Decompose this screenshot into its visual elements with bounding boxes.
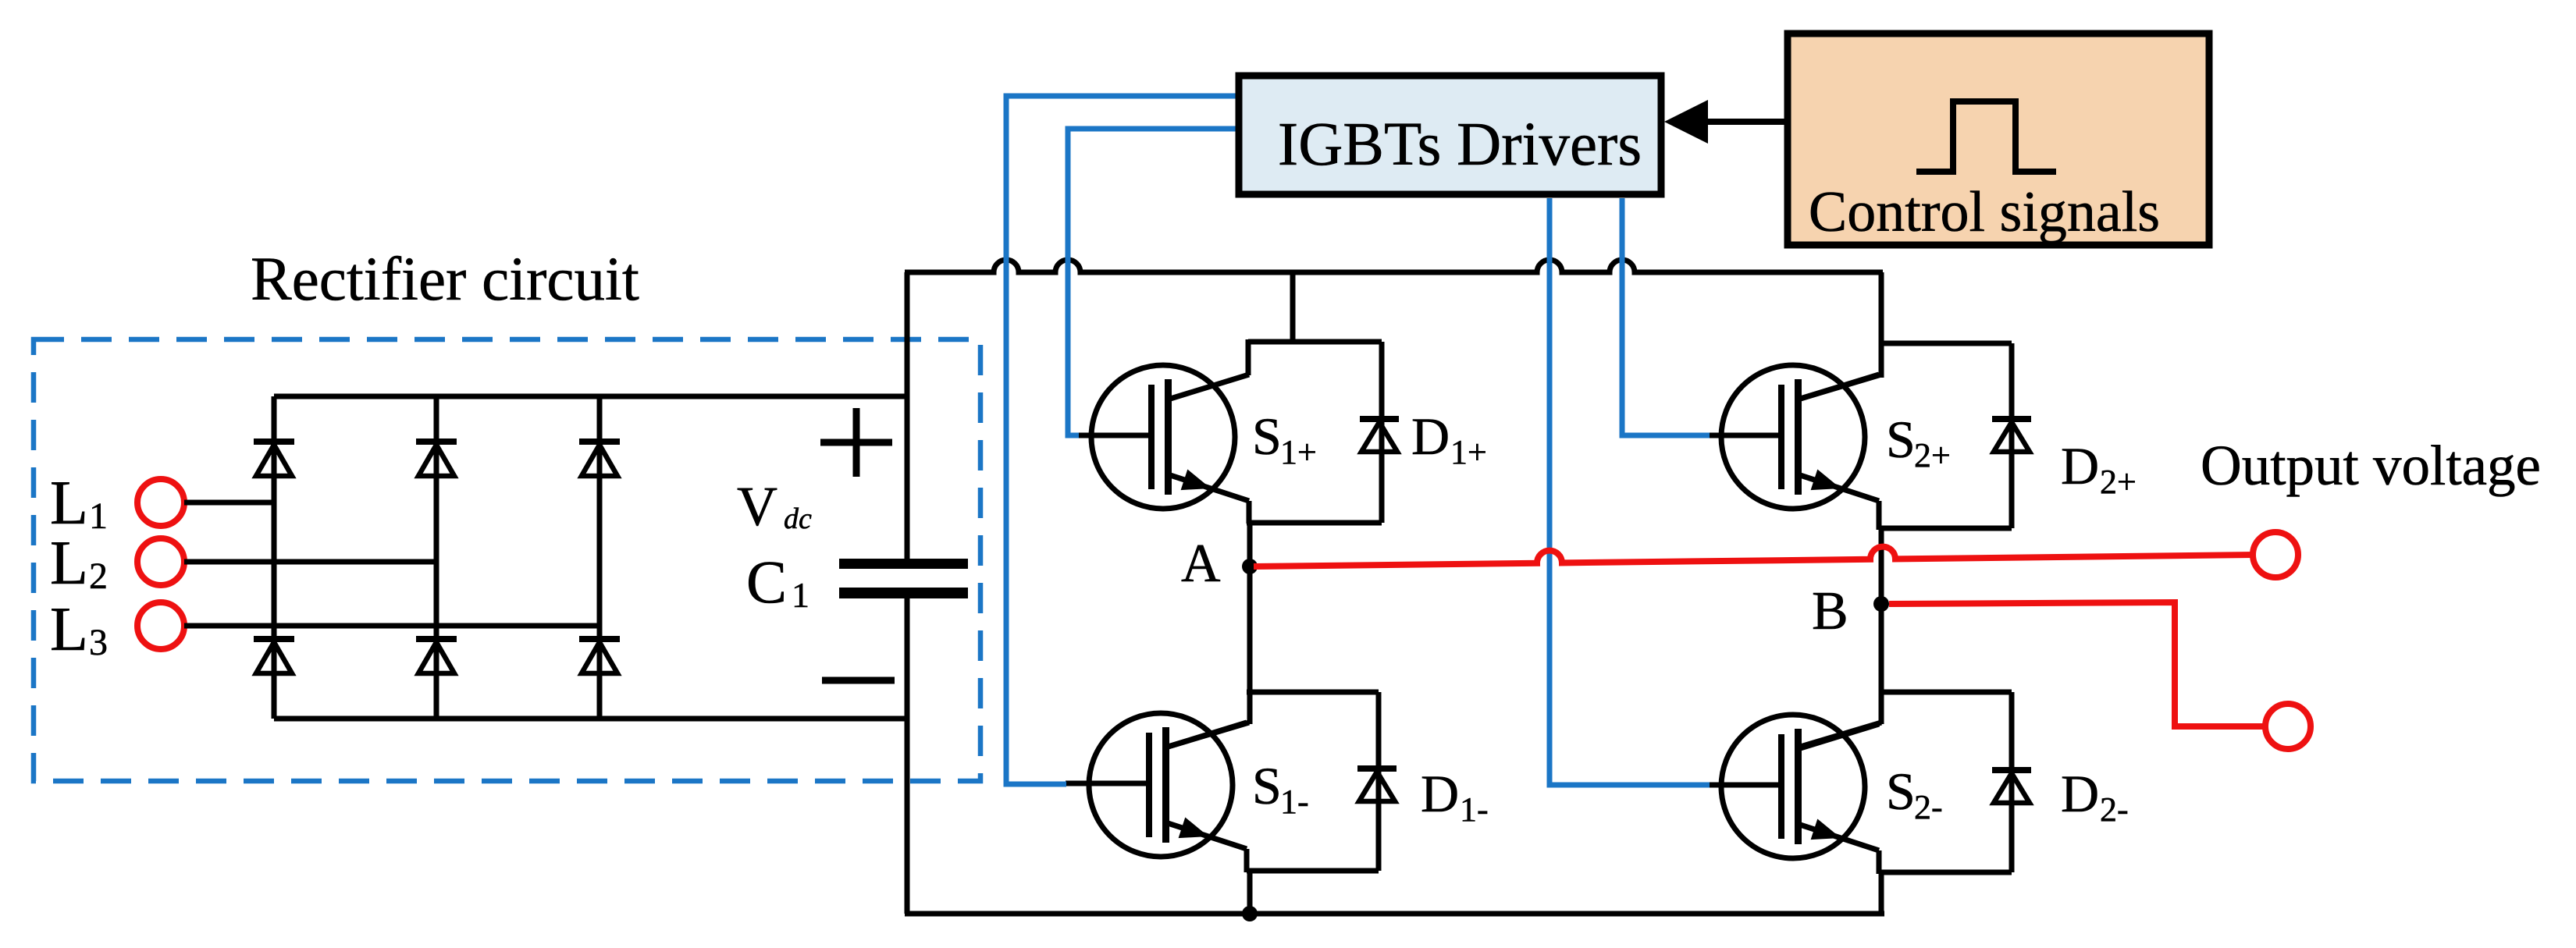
diode D2- cathode bar <box>1992 767 2031 773</box>
svg-text:B: B <box>1812 581 1848 641</box>
svg-text:A: A <box>1181 534 1221 594</box>
wire: D2+ branch <box>2009 343 2015 528</box>
IGBT S1+ collector lead <box>1168 375 1249 399</box>
svg-text:L: L <box>50 469 88 538</box>
wire: D2- branch <box>2009 692 2015 872</box>
svg-text:L: L <box>50 595 88 664</box>
node B dot <box>1873 596 1889 612</box>
svg-text:S: S <box>1252 756 1282 815</box>
svg-text:1: 1 <box>89 495 108 537</box>
wire: gate drive to S2- (blue) <box>1550 198 1710 785</box>
svg-text:1-: 1- <box>1280 783 1309 821</box>
svg-text:3: 3 <box>89 622 108 663</box>
wire: output B (red) <box>1889 602 2265 726</box>
wire: S1+/D1+ loop top <box>1248 339 1382 345</box>
diode D2+ triangle <box>1994 422 2030 452</box>
svg-text:2: 2 <box>89 556 108 597</box>
svg-text:1-: 1- <box>1460 790 1489 829</box>
svg-text:S: S <box>1886 762 1916 821</box>
IGBT S1- emitter arrow <box>1179 818 1209 839</box>
IGBT S2+ emitter lead <box>1798 474 1879 501</box>
wire: output A (red, hops over gate wire and B leg) <box>1254 547 2255 566</box>
wire: S2+/D2+ loop bottom <box>1879 526 2012 531</box>
wire: S1- emitter drop <box>1244 849 1250 872</box>
svg-text:IGBTs Drivers: IGBTs Drivers <box>1278 111 1642 179</box>
wire: S1- collector angle <box>1165 723 1249 747</box>
svg-text:D: D <box>2061 436 2099 495</box>
wire: S2- collector angle <box>1798 723 1881 747</box>
wire: gate drive to S1+ (blue) <box>1068 129 1241 435</box>
IGBT S1- gate bar <box>1146 733 1152 837</box>
wire L2 <box>184 559 436 565</box>
IGBT S2- gate bar <box>1778 734 1784 839</box>
IGBT S2- collector lead <box>1798 724 1879 749</box>
wire: rectifier leg 1 <box>272 396 277 719</box>
wire: gate drive to S2+ (blue) <box>1622 198 1710 435</box>
diode D1- triangle <box>1359 772 1395 801</box>
IGBT S1+ emitter lead <box>1168 474 1249 501</box>
box: IGBTs Drivers <box>1239 76 1661 194</box>
IGBT S2- channel bar <box>1795 729 1802 844</box>
diode D1+ cathode bar <box>1360 416 1399 422</box>
diode rectifier bottom diode 3 cathode bar <box>579 636 620 642</box>
terminal L2 circle <box>137 538 184 585</box>
diode rectifier bottom diode 1 cathode bar <box>254 636 294 642</box>
IGBT S2+ collector lead <box>1798 375 1879 399</box>
IGBT S2+ emitter arrow <box>1811 470 1841 491</box>
wire: S2+ collector angle <box>1798 375 1881 399</box>
IGBT S2+ circle <box>1721 365 1865 509</box>
box: Control signals <box>1788 34 2209 245</box>
svg-text:D: D <box>1421 764 1459 823</box>
IGBT S1+ emitter arrow <box>1181 470 1212 491</box>
svg-text:V: V <box>737 475 777 538</box>
node A dot <box>1242 559 1258 574</box>
IGBT S1- gate lead <box>1066 781 1146 786</box>
svg-text:C: C <box>746 548 787 616</box>
wire: S2- emitter drop <box>1877 850 1882 874</box>
wire: S2-/D2- loop top <box>1879 690 2012 695</box>
svg-text:S: S <box>1252 407 1282 466</box>
wire: S1-/D1- loop bottom <box>1247 868 1379 874</box>
svg-text:S: S <box>1886 410 1916 469</box>
svg-text:D: D <box>1411 407 1450 466</box>
IGBT S1+ channel bar <box>1165 379 1172 495</box>
IGBT S1- circle <box>1089 713 1233 857</box>
svg-text:2-: 2- <box>1914 788 1943 826</box>
plus symbol <box>820 439 892 446</box>
capacitor C1 top plate <box>839 559 968 569</box>
terminal L3 circle <box>137 602 184 649</box>
diode D1+ triangle <box>1361 422 1397 452</box>
pulse waveform icon <box>1916 101 2056 172</box>
wire: rectifier leg 3 <box>597 396 603 719</box>
capacitor C1 bottom plate <box>839 588 968 598</box>
diode rectifier top diode 2 cathode bar <box>416 438 457 445</box>
svg-text:Rectifier circuit: Rectifier circuit <box>251 246 639 314</box>
wire: S2- emitter to bus <box>1879 872 1884 914</box>
svg-text:dc: dc <box>784 502 812 535</box>
IGBT S2+ channel bar <box>1795 379 1802 495</box>
IGBT S2- circle <box>1721 715 1865 858</box>
terminal: output - circle <box>2265 704 2311 749</box>
wire: H-bridge top bus (hops over gate wires) <box>905 260 1883 272</box>
wire: H-bridge bottom bus <box>905 911 1884 917</box>
diode rectifier top diode 2 triangle <box>418 445 454 476</box>
diode rectifier bottom diode 2 cathode bar <box>416 636 457 642</box>
wire L1 <box>184 500 274 506</box>
junction: S1- emitter to bottom bus <box>1242 906 1258 921</box>
wire: phase A vertical <box>1247 523 1253 724</box>
wire: S1+/D1+ loop bottom <box>1247 520 1382 526</box>
svg-text:Control signals: Control signals <box>1809 180 2160 244</box>
diode D2+ cathode bar <box>1992 416 2031 422</box>
diode D1- cathode bar <box>1357 765 1397 772</box>
wire: DC link vertical (bottom) <box>905 598 910 914</box>
wire: S2+ leg from top bus <box>1879 272 1884 378</box>
wire: phase B vertical <box>1879 528 1884 724</box>
wire: S2-/D2- loop bottom <box>1879 870 2012 875</box>
terminal L1 circle <box>137 479 184 526</box>
IGBT S1+ circle <box>1091 365 1235 509</box>
arrow: control signals to IGBTs drivers (head) <box>1664 100 1708 144</box>
IGBT S1+ gate bar <box>1148 385 1155 489</box>
IGBT S2- gate lead <box>1698 783 1778 788</box>
wire: S1+ leg from top bus <box>1290 272 1296 342</box>
wire: S1-/D1- loop top <box>1247 690 1379 695</box>
wire: S2+ emitter drop <box>1877 501 1882 530</box>
svg-text:D: D <box>2061 764 2099 823</box>
wire: S2+/D2+ loop top <box>1879 341 2012 346</box>
terminal: output + circle <box>2253 532 2298 577</box>
IGBT S2- emitter lead <box>1798 824 1879 850</box>
svg-text:2+: 2+ <box>2100 463 2137 501</box>
svg-text:1+: 1+ <box>1450 433 1487 471</box>
diode D2- triangle <box>1994 773 2030 803</box>
IGBT S1- collector lead <box>1165 723 1247 747</box>
wire: S1+ emitter drop <box>1247 501 1252 524</box>
wire: S1+ collector riser <box>1246 339 1251 375</box>
wire: S1- emitter to bus <box>1247 871 1253 914</box>
diode rectifier top diode 1 triangle <box>256 445 292 476</box>
wire: rectifier bottom bus <box>274 716 907 722</box>
svg-text:Output voltage: Output voltage <box>2201 434 2541 497</box>
IGBT S2+ gate bar <box>1778 385 1784 489</box>
wire L3 <box>184 623 600 629</box>
dashed box: rectifier circuit boundary <box>34 339 980 781</box>
diode rectifier bottom diode 2 triangle <box>418 642 454 673</box>
wire: rectifier top bus <box>274 394 907 399</box>
wire: D1+ branch <box>1379 342 1385 523</box>
arrow: control signals to IGBTs drivers (shaft) <box>1703 119 1788 125</box>
svg-text:2+: 2+ <box>1914 436 1951 474</box>
diode rectifier top diode 3 cathode bar <box>579 438 620 445</box>
svg-text:2-: 2- <box>2100 790 2129 829</box>
IGBT S1+ gate lead <box>1068 433 1148 438</box>
diode rectifier bottom diode 3 triangle <box>582 642 617 673</box>
svg-text:L: L <box>50 529 88 598</box>
diode rectifier top diode 1 cathode bar <box>254 438 294 445</box>
svg-text:1: 1 <box>792 575 809 615</box>
diode rectifier top diode 3 triangle <box>582 445 617 476</box>
IGBT S1- channel bar <box>1162 727 1169 843</box>
wire: S2- collector riser <box>1879 692 1884 724</box>
wire: D1- branch <box>1376 692 1382 871</box>
IGBT S2+ gate lead <box>1698 433 1778 438</box>
wire: rectifier leg 2 <box>434 396 439 719</box>
minus symbol <box>822 677 895 684</box>
svg-text:1+: 1+ <box>1280 433 1317 471</box>
wire: DC link vertical (top) <box>905 272 910 559</box>
IGBT S2- emitter arrow <box>1811 819 1841 840</box>
diode rectifier bottom diode 1 triangle <box>256 642 292 673</box>
wire: gate drive to S1- (blue) <box>1006 96 1241 784</box>
IGBT S1- emitter lead <box>1165 822 1247 849</box>
